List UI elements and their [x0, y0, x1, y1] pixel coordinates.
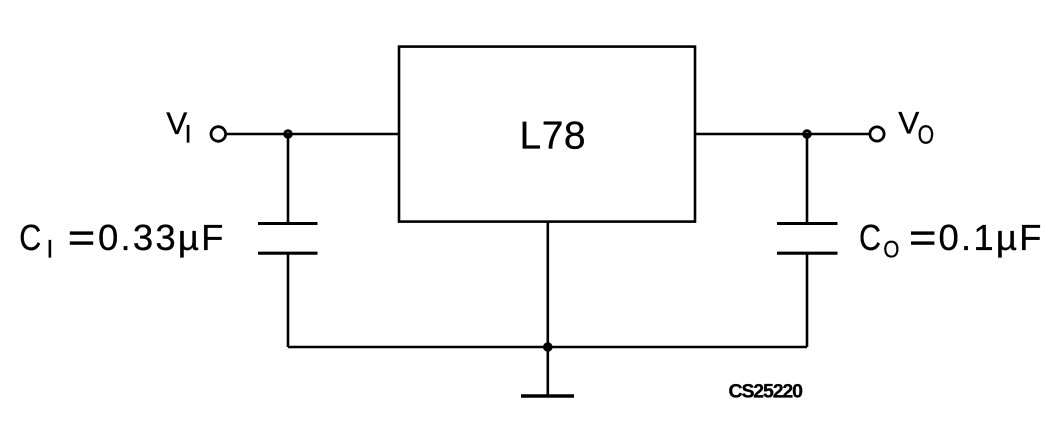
- regulator U1 L78 box: [399, 47, 695, 222]
- capacitor C1 value label C1 = 0.33uF: [19, 217, 225, 264]
- svg-text:0.33µF: 0.33µF: [98, 217, 226, 258]
- svg-text:I: I: [46, 236, 53, 264]
- wire C2 bottom lead: [806, 253, 809, 347]
- junction output node: [804, 131, 811, 138]
- capacitor C2: [777, 224, 838, 254]
- terminal VO: [870, 127, 884, 141]
- wire input rail: [227, 133, 399, 136]
- junction input node: [285, 131, 292, 138]
- svg-text:O: O: [883, 237, 899, 264]
- svg-text:C: C: [19, 217, 41, 258]
- node VI label: [166, 105, 191, 149]
- svg-text:I: I: [185, 121, 192, 149]
- wire C1 top lead: [287, 134, 290, 224]
- wire output rail: [695, 133, 869, 136]
- ground: [521, 394, 574, 397]
- capacitor C1: [258, 224, 318, 254]
- node VO label: [898, 104, 934, 149]
- svg-text:L78: L78: [520, 114, 587, 157]
- wire center ground pin: [546, 222, 549, 347]
- capacitor C2 value label C0 = 0.1uF: [859, 217, 1044, 264]
- svg-text:CS25220: CS25220: [729, 381, 804, 403]
- junction ground node: [545, 344, 552, 351]
- wire ground stub: [546, 347, 549, 396]
- svg-text:C: C: [859, 217, 881, 258]
- wire ground rail: [288, 346, 807, 349]
- svg-text:0.1µF: 0.1µF: [939, 217, 1044, 258]
- svg-text:V: V: [898, 104, 919, 140]
- wire C1 bottom lead: [287, 253, 290, 347]
- terminal VI: [211, 127, 226, 142]
- wire C2 top lead: [806, 134, 809, 224]
- svg-text:O: O: [918, 121, 935, 149]
